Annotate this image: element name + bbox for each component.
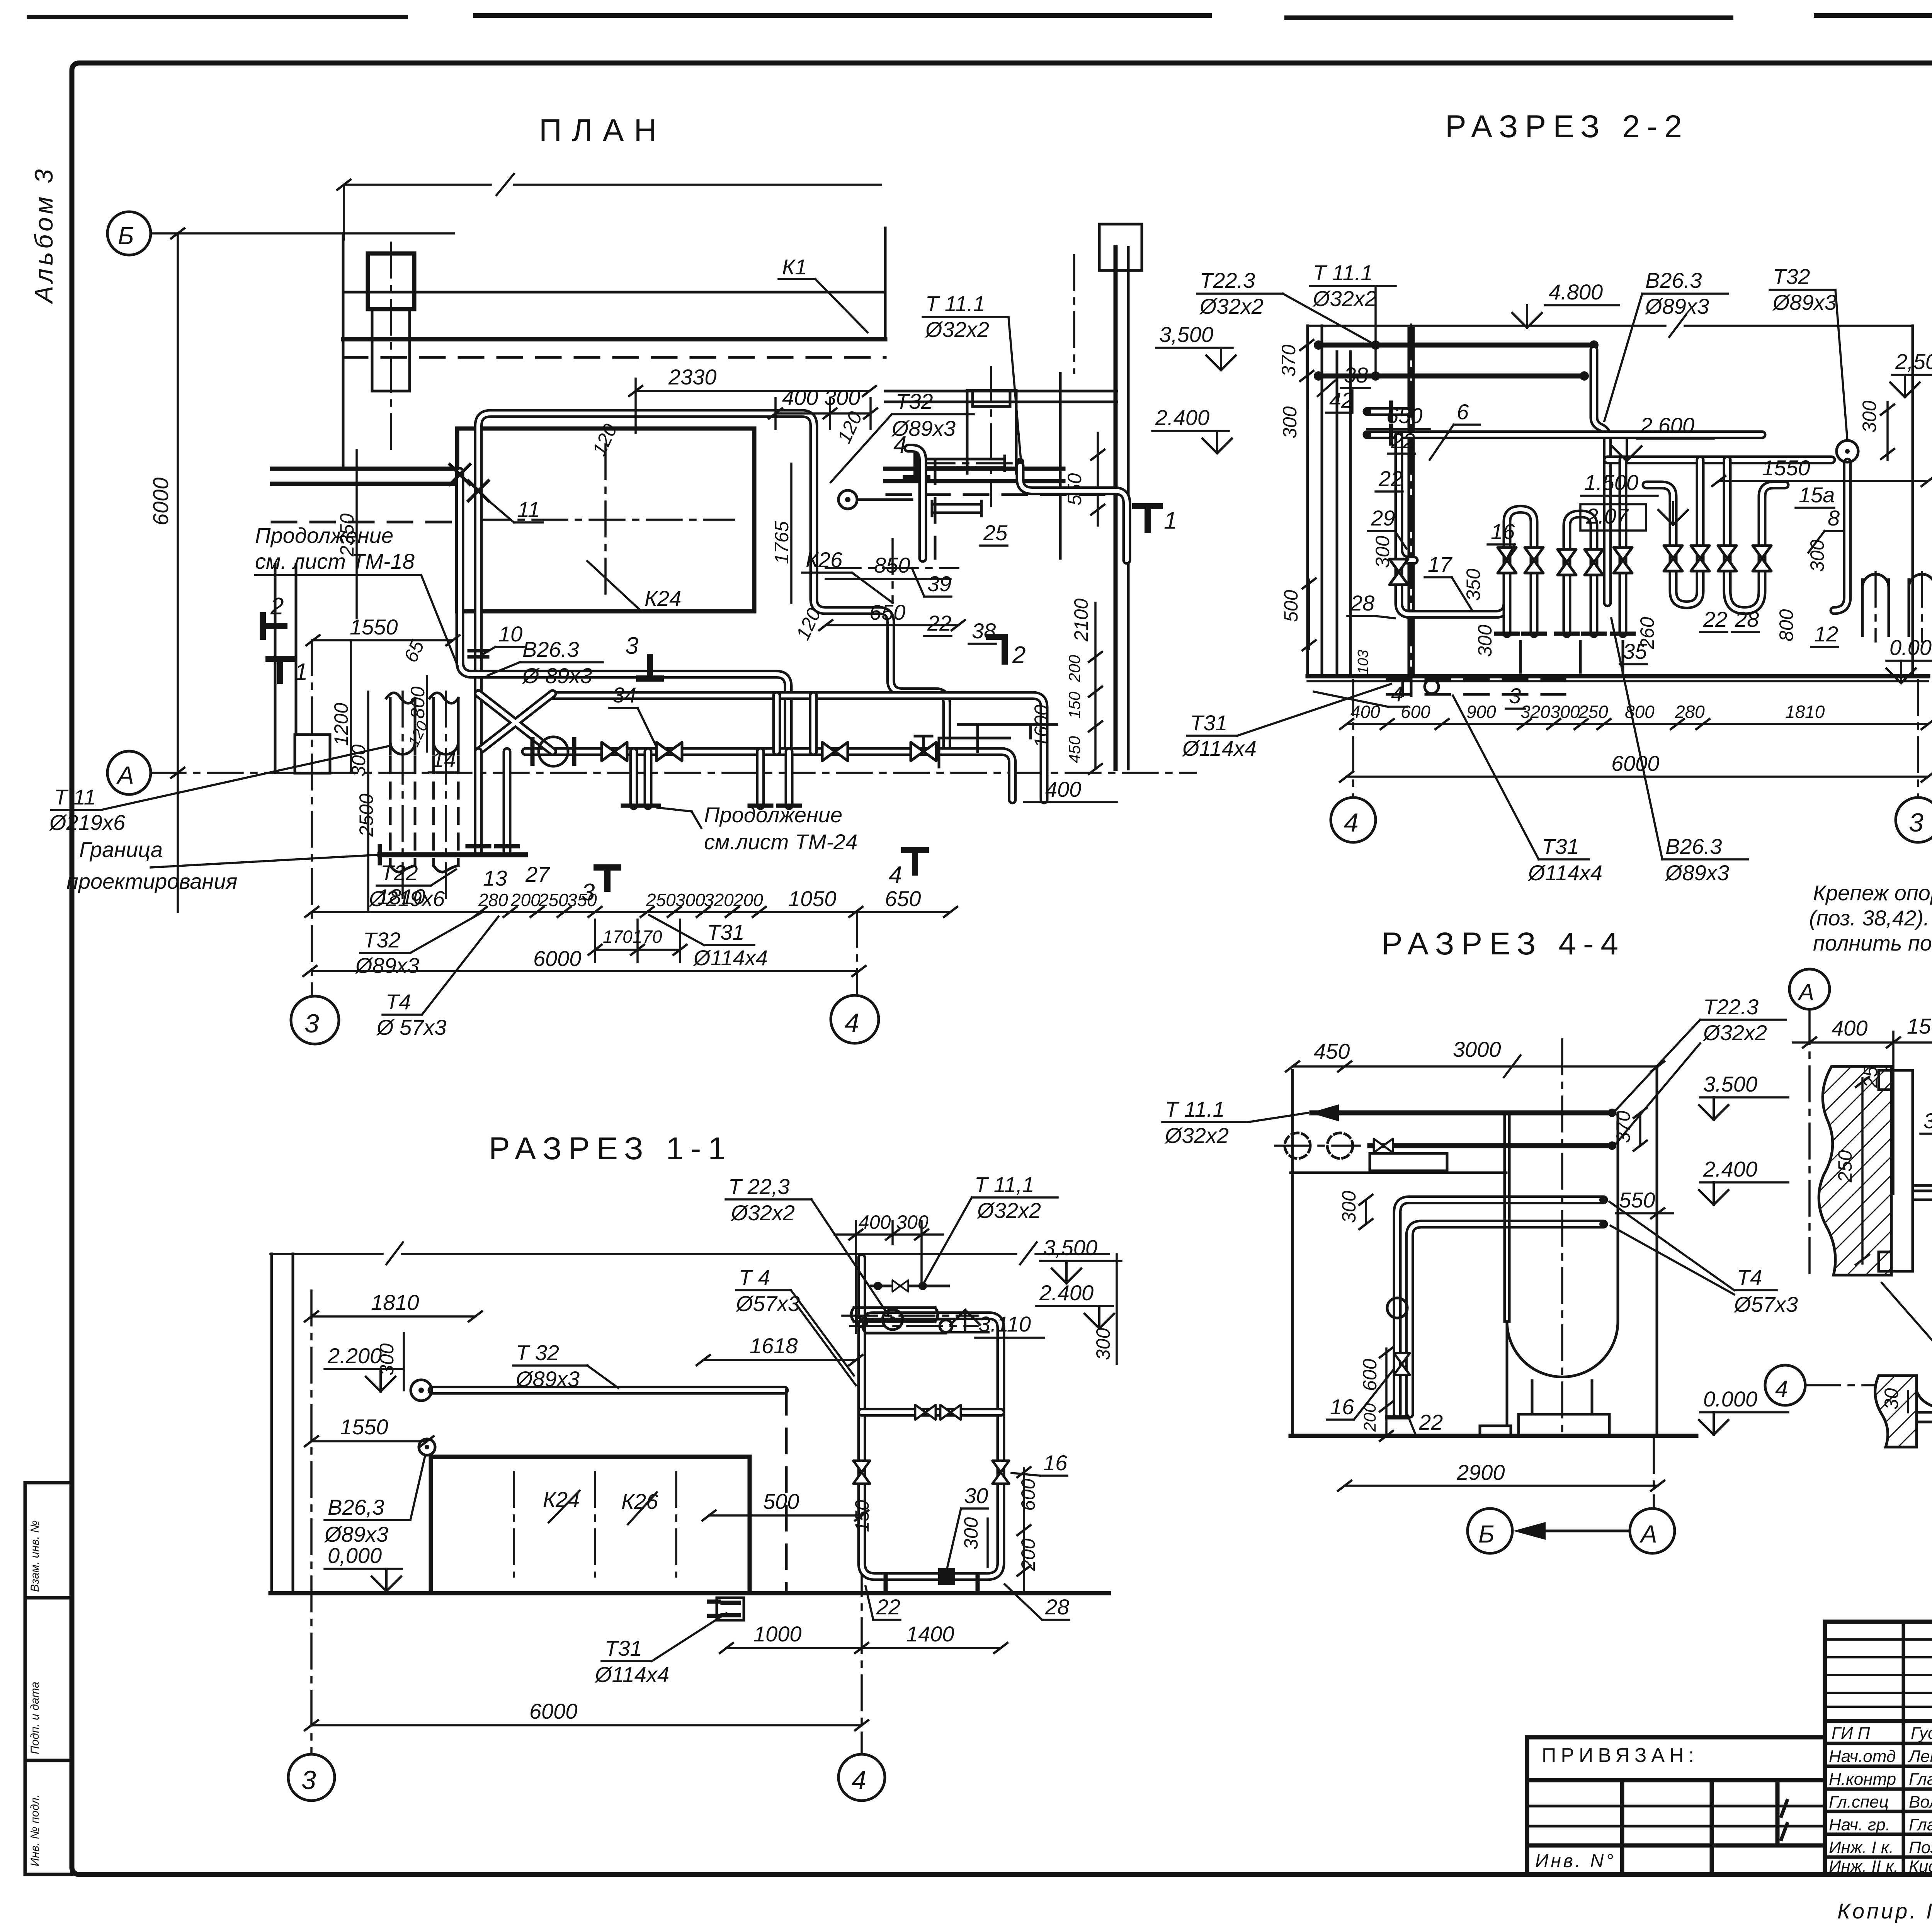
svg-text:Инв. N°: Инв. N° bbox=[1535, 1851, 1616, 1871]
valves on manifold bbox=[602, 742, 627, 761]
svg-text:А: А bbox=[1798, 979, 1814, 1005]
left boundary bbox=[1291, 1070, 1294, 1436]
svg-text:250: 250 bbox=[538, 890, 568, 910]
svg-text:103: 103 bbox=[1355, 650, 1371, 674]
svg-text:Т22.3: Т22.3 bbox=[1703, 995, 1759, 1019]
svg-text:ГИ П: ГИ П bbox=[1832, 1724, 1870, 1743]
black square fitting bbox=[938, 1568, 955, 1585]
T4 short pipe left bbox=[1367, 412, 1762, 435]
svg-text:3: 3 bbox=[625, 633, 638, 659]
svg-text:2500: 2500 bbox=[355, 794, 377, 837]
T31 underground box bbox=[717, 1598, 744, 1620]
svg-text:Ø89х3: Ø89х3 bbox=[1665, 861, 1729, 885]
svg-text:14: 14 bbox=[432, 747, 456, 772]
svg-text:Продолжение: Продолжение bbox=[704, 803, 842, 827]
svg-text:400: 400 bbox=[1832, 1016, 1867, 1040]
svg-text:1400: 1400 bbox=[906, 1622, 954, 1646]
svg-text:800: 800 bbox=[1776, 609, 1797, 641]
T11.1 drop pipe bbox=[1016, 458, 1024, 466]
svg-text:Ø114х4: Ø114х4 bbox=[693, 946, 768, 970]
svg-text:600: 600 bbox=[1359, 1359, 1381, 1391]
svg-text:Ø114х4: Ø114х4 bbox=[594, 1662, 669, 1687]
axis 4 dash line bbox=[856, 912, 858, 994]
top extension line bbox=[344, 174, 881, 195]
svg-text:Т31: Т31 bbox=[707, 920, 745, 944]
svg-text:4: 4 bbox=[1344, 808, 1359, 837]
svg-text:Ø57х3: Ø57х3 bbox=[1733, 1292, 1798, 1316]
svg-text:Ø89х3: Ø89х3 bbox=[355, 953, 419, 978]
svg-text:Т22: Т22 bbox=[381, 861, 418, 885]
svg-text:1: 1 bbox=[294, 659, 308, 685]
svg-text:320: 320 bbox=[1520, 702, 1550, 722]
svg-text:250: 250 bbox=[1578, 702, 1608, 722]
level 3.110 bbox=[942, 1310, 988, 1332]
manifold pipe bbox=[526, 752, 1012, 800]
ceiling line 4.800 bbox=[1308, 315, 1913, 337]
svg-text:Б: Б bbox=[118, 222, 134, 250]
wall band dashed bbox=[272, 521, 457, 524]
svg-text:Т32: Т32 bbox=[1773, 264, 1810, 289]
svg-text:3: 3 bbox=[301, 1765, 316, 1795]
sheet top edge broken line bbox=[29, 15, 1932, 18]
svg-text:2: 2 bbox=[1012, 642, 1026, 668]
svg-text:проектирования: проектирования bbox=[66, 869, 237, 893]
svg-text:3: 3 bbox=[582, 879, 595, 906]
boiler U loops bbox=[1507, 460, 1623, 634]
anchor on B26 riser top bbox=[450, 464, 470, 485]
svg-text:6000: 6000 bbox=[529, 1699, 578, 1723]
svg-text:Т32: Т32 bbox=[363, 928, 401, 952]
svg-text:38;42: 38;42 bbox=[1923, 1109, 1932, 1133]
axis vertical bbox=[1653, 1438, 1655, 1507]
T32 riser with circle bbox=[1834, 462, 1847, 611]
svg-text:Ø32х2: Ø32х2 bbox=[1164, 1123, 1229, 1148]
svg-text:300: 300 bbox=[960, 1517, 982, 1549]
svg-text:0.000: 0.000 bbox=[1889, 635, 1932, 660]
svg-text:300: 300 bbox=[1279, 406, 1301, 439]
svg-text:400: 400 bbox=[1350, 702, 1380, 722]
svg-text:Подп. и дата: Подп. и дата bbox=[29, 1682, 41, 1754]
svg-text:650: 650 bbox=[869, 600, 905, 624]
svg-text:150: 150 bbox=[851, 1500, 873, 1532]
bottom tick of drop bbox=[1387, 1415, 1407, 1420]
lower sub-detail bbox=[1765, 1365, 1805, 1405]
svg-text:Ø32х2: Ø32х2 bbox=[1702, 1020, 1767, 1045]
svg-text:Копир. Ганкова: Копир. Ганкова bbox=[1837, 1899, 1932, 1923]
right boundary line bbox=[1116, 1254, 1118, 1364]
svg-text:К24: К24 bbox=[645, 586, 681, 611]
svg-text:15а: 15а bbox=[1799, 483, 1835, 507]
column hatched bbox=[1819, 1066, 1891, 1275]
stub end flanges bbox=[623, 804, 800, 808]
top pipe 1 bbox=[1312, 1111, 1612, 1116]
svg-text:4.800: 4.800 bbox=[1549, 280, 1603, 304]
boiler body bbox=[1505, 1113, 1618, 1321]
svg-text:Гладикова: Гладикова bbox=[1909, 1770, 1932, 1789]
right pipe loop bbox=[862, 1316, 1001, 1577]
valve pipe T11.1 at 3.300 bbox=[871, 1285, 949, 1287]
svg-text:22: 22 bbox=[876, 1595, 900, 1619]
pipe cylinders T22.3 bbox=[851, 1308, 938, 1321]
fitting circle bbox=[1387, 1298, 1407, 1318]
svg-text:Киселева: Киселева bbox=[1909, 1857, 1932, 1876]
svg-text:0,000: 0,000 bbox=[328, 1543, 382, 1568]
chimney column bbox=[368, 253, 414, 309]
svg-text:Поздеева: Поздеева bbox=[1909, 1838, 1932, 1857]
svg-text:42: 42 bbox=[1329, 388, 1353, 412]
axis B line bbox=[151, 232, 454, 235]
svg-text:Нач. гр.: Нач. гр. bbox=[1829, 1815, 1890, 1834]
role names bbox=[1829, 1724, 1932, 1876]
svg-text:850: 850 bbox=[874, 553, 910, 577]
svg-text:Нач.отд: Нач.отд bbox=[1829, 1747, 1896, 1766]
svg-text:1765: 1765 bbox=[771, 521, 793, 564]
svg-text:В26.3: В26.3 bbox=[522, 637, 579, 662]
manifold exit step lines bbox=[939, 724, 1057, 767]
connector pipes bbox=[478, 694, 813, 752]
axis 3 dash line bbox=[311, 640, 313, 995]
union on T32 riser bbox=[469, 651, 488, 657]
svg-text:370: 370 bbox=[1278, 344, 1299, 377]
svg-text:25: 25 bbox=[983, 520, 1008, 545]
svg-text:Т31: Т31 bbox=[1190, 711, 1228, 735]
left wall lower verticals bbox=[275, 564, 296, 773]
svg-text:300: 300 bbox=[1550, 702, 1580, 722]
sleeve cylinders bbox=[923, 456, 1005, 471]
svg-text:Ø 57х3: Ø 57х3 bbox=[376, 1015, 447, 1039]
pipe end circles dashed bbox=[1285, 1133, 1310, 1158]
svg-text:Гладикова: Гладикова bbox=[1909, 1815, 1932, 1834]
svg-text:22: 22 bbox=[1418, 1410, 1443, 1434]
bottom dim chain bbox=[1347, 723, 1928, 725]
circle B bbox=[1468, 1509, 1512, 1553]
svg-text:17: 17 bbox=[1428, 552, 1452, 577]
svg-text:Т32: Т32 bbox=[896, 389, 933, 413]
angle bracket bbox=[1917, 1391, 1932, 1412]
svg-text:Ø 89х3: Ø 89х3 bbox=[522, 663, 592, 688]
svg-text:300: 300 bbox=[1859, 400, 1880, 433]
svg-text:2900: 2900 bbox=[1456, 1460, 1505, 1485]
svg-text:370: 370 bbox=[1612, 1111, 1634, 1143]
svg-text:10: 10 bbox=[498, 622, 522, 646]
svg-text:3,500: 3,500 bbox=[1043, 1235, 1097, 1260]
svg-text:Ø89х3: Ø89х3 bbox=[1772, 290, 1837, 315]
svg-text:Ø89х3: Ø89х3 bbox=[324, 1522, 388, 1546]
top wall dashed line bbox=[343, 356, 885, 359]
svg-text:12: 12 bbox=[1814, 622, 1838, 646]
axis 3 circle bbox=[291, 996, 339, 1044]
svg-text:3.500: 3.500 bbox=[1703, 1072, 1757, 1096]
svg-text:см. лист ТМ-18: см. лист ТМ-18 bbox=[255, 549, 415, 573]
svg-text:Т4: Т4 bbox=[1737, 1265, 1762, 1289]
svg-text:Ø32х2: Ø32х2 bbox=[730, 1201, 795, 1225]
svg-text:4: 4 bbox=[1775, 1376, 1788, 1402]
svg-text:1810: 1810 bbox=[377, 884, 425, 909]
svg-text:Лепендин: Лепендин bbox=[1908, 1747, 1932, 1766]
anchor on T32 riser bbox=[468, 481, 488, 501]
left wall top vertical bbox=[342, 233, 345, 469]
floor line bbox=[1308, 674, 1928, 679]
svg-text:Инж. I к.: Инж. I к. bbox=[1829, 1838, 1894, 1857]
svg-text:К1: К1 bbox=[782, 255, 807, 279]
svg-text:600: 600 bbox=[1401, 702, 1430, 722]
svg-text:0.000: 0.000 bbox=[1703, 1387, 1757, 1411]
circle 4 bbox=[838, 1754, 885, 1801]
svg-text:2.07: 2.07 bbox=[1586, 504, 1629, 528]
axis circles bbox=[1352, 680, 1354, 798]
manifold stubs bbox=[478, 752, 789, 852]
svg-text:260: 260 bbox=[1636, 617, 1658, 650]
svg-text:Ø57х3: Ø57х3 bbox=[735, 1291, 800, 1316]
axis A line bbox=[151, 772, 1196, 774]
wall step box bbox=[295, 735, 330, 773]
svg-text:650: 650 bbox=[1386, 403, 1422, 428]
right wall verticals bbox=[1114, 247, 1118, 769]
axis A circle bbox=[107, 751, 151, 794]
left wall verticals bbox=[1308, 326, 1350, 676]
svg-text:22: 22 bbox=[1378, 466, 1403, 491]
privyazan table bbox=[1527, 1737, 1825, 1874]
svg-text:Т 4: Т 4 bbox=[739, 1265, 770, 1289]
svg-text:300: 300 bbox=[1338, 1190, 1360, 1223]
platform bbox=[1291, 1172, 1506, 1174]
bottom stubs bbox=[886, 1577, 978, 1589]
svg-text:3000: 3000 bbox=[1453, 1037, 1501, 1061]
svg-text:400 300: 400 300 bbox=[782, 385, 860, 410]
hanger rods bbox=[1409, 328, 1413, 674]
svg-text:320: 320 bbox=[704, 890, 734, 910]
axis B circle bbox=[107, 212, 151, 255]
svg-text:В26,3: В26,3 bbox=[328, 1495, 384, 1519]
bracket beam bbox=[1913, 1182, 1932, 1202]
svg-text:РАЗРЕЗ 1-1: РАЗРЕЗ 1-1 bbox=[489, 1131, 733, 1166]
mid pipe bbox=[862, 1408, 1001, 1417]
svg-text:3: 3 bbox=[304, 1009, 319, 1038]
svg-text:Т4: Т4 bbox=[386, 990, 411, 1014]
left wall bbox=[272, 1254, 293, 1593]
beam side bbox=[1917, 1410, 1932, 1425]
upper pump line bbox=[553, 696, 1044, 800]
svg-text:2330: 2330 bbox=[668, 365, 717, 389]
floor bbox=[270, 1591, 1109, 1595]
svg-text:1550: 1550 bbox=[340, 1415, 388, 1439]
svg-text:300: 300 bbox=[1372, 536, 1393, 568]
svg-text:300: 300 bbox=[675, 890, 705, 910]
svg-text:1: 1 bbox=[1164, 507, 1177, 534]
svg-text:1810: 1810 bbox=[371, 1290, 419, 1315]
svg-text:500: 500 bbox=[1280, 590, 1302, 622]
svg-text:200: 200 bbox=[510, 890, 541, 910]
boiler K24 rect bbox=[457, 429, 754, 611]
svg-text:РАЗРЕЗ 4-4: РАЗРЕЗ 4-4 bbox=[1381, 926, 1625, 961]
svg-text:3.110: 3.110 bbox=[978, 1312, 1031, 1336]
svg-text:6000: 6000 bbox=[1611, 751, 1660, 776]
svg-text:Волкова: Волкова bbox=[1909, 1793, 1932, 1811]
svg-text:2: 2 bbox=[270, 593, 284, 620]
svg-text:(поз. 38,42). Кронштейн вы-: (поз. 38,42). Кронштейн вы- bbox=[1809, 906, 1932, 930]
plate bbox=[1891, 1070, 1913, 1271]
svg-text:200: 200 bbox=[733, 890, 763, 910]
svg-text:Взам. инв. №: Взам. инв. № bbox=[29, 1520, 41, 1592]
tanks in section bbox=[1862, 574, 1932, 636]
svg-text:2.600: 2.600 bbox=[1640, 413, 1694, 437]
svg-text:250: 250 bbox=[1834, 1150, 1856, 1183]
svg-text:РАЗРЕЗ 2-2: РАЗРЕЗ 2-2 bbox=[1445, 109, 1689, 144]
svg-text:4: 4 bbox=[889, 862, 902, 888]
svg-text:Крепеж опор трубопроводов: Крепеж опор трубопроводов bbox=[1813, 881, 1932, 905]
svg-text:1618: 1618 bbox=[750, 1333, 798, 1358]
svg-text:3,500: 3,500 bbox=[1159, 322, 1213, 347]
svg-text:900: 900 bbox=[1466, 702, 1496, 722]
svg-text:см.лист ТМ-24: см.лист ТМ-24 bbox=[704, 830, 857, 854]
svg-text:1000: 1000 bbox=[753, 1622, 802, 1646]
svg-text:450: 450 bbox=[1065, 736, 1083, 763]
T32 pipe 2.200 bbox=[432, 1386, 784, 1395]
axis 4 vertical bbox=[861, 1275, 863, 1754]
svg-text:29: 29 bbox=[1371, 506, 1395, 530]
svg-text:2.200: 2.200 bbox=[327, 1344, 382, 1368]
svg-text:Ø89х3: Ø89х3 bbox=[1645, 294, 1709, 318]
collector line bbox=[380, 852, 526, 857]
svg-text:К26: К26 bbox=[806, 548, 843, 572]
svg-text:Т 32: Т 32 bbox=[516, 1340, 559, 1365]
svg-text:Т31: Т31 bbox=[1542, 834, 1579, 859]
distribution pipe 2.600 bbox=[1607, 456, 1832, 464]
svg-text:38: 38 bbox=[1344, 363, 1368, 387]
svg-text:Граница: Граница bbox=[79, 837, 163, 862]
circle A bbox=[1789, 969, 1830, 1009]
bottom flanges bbox=[1496, 632, 1634, 636]
svg-text:Альбом 3: Альбом 3 bbox=[29, 166, 58, 304]
svg-text:Гусева: Гусева bbox=[1911, 1724, 1932, 1743]
top-right small pipes bbox=[1073, 255, 1075, 373]
svg-text:2.400: 2.400 bbox=[1703, 1157, 1757, 1181]
top pipe T22.3 bbox=[1318, 343, 1594, 348]
valves on loops bbox=[1389, 559, 1408, 585]
svg-text:3: 3 bbox=[1909, 808, 1923, 837]
svg-text:350: 350 bbox=[1463, 568, 1484, 601]
svg-text:Ø219х6: Ø219х6 bbox=[49, 810, 126, 835]
partition wall bbox=[1059, 373, 1062, 558]
svg-text:ПРИВЯЗАН:: ПРИВЯЗАН: bbox=[1542, 1744, 1699, 1767]
svg-text:1200: 1200 bbox=[330, 703, 352, 746]
svg-text:650: 650 bbox=[885, 886, 921, 911]
svg-text:13: 13 bbox=[483, 866, 507, 890]
top wall upper line bbox=[343, 291, 885, 294]
riser B26.3 bbox=[1594, 350, 1607, 603]
label K26 bbox=[826, 567, 958, 569]
svg-text:К24: К24 bbox=[543, 1487, 580, 1512]
svg-text:Продолжение: Продолжение bbox=[255, 523, 393, 548]
left stamp boxes bbox=[25, 1483, 72, 1874]
mid pipes T4 bbox=[1397, 1200, 1604, 1414]
arrow A to B bbox=[1542, 1530, 1630, 1532]
svg-text:Инв. № подл.: Инв. № подл. bbox=[29, 1794, 41, 1866]
svg-text:1050: 1050 bbox=[788, 886, 837, 911]
boiler K24 front bbox=[431, 1457, 750, 1593]
svg-text:4: 4 bbox=[893, 432, 906, 458]
svg-text:3: 3 bbox=[1509, 684, 1521, 708]
svg-text:22: 22 bbox=[1703, 607, 1727, 631]
svg-text:39: 39 bbox=[927, 571, 951, 596]
left drop pipe bbox=[1399, 435, 1507, 614]
signature table thin rows bbox=[1825, 1639, 1932, 1707]
pump circle bbox=[539, 737, 568, 766]
riser pipe at partition bbox=[913, 444, 920, 452]
svg-text:Ø32х2: Ø32х2 bbox=[1312, 286, 1377, 311]
svg-text:1600: 1600 bbox=[1031, 705, 1052, 748]
svg-text:550: 550 bbox=[1619, 1188, 1655, 1212]
svg-text:300: 300 bbox=[1092, 1328, 1114, 1360]
svg-text:800: 800 bbox=[407, 686, 429, 719]
top pipe 2 bbox=[1370, 1143, 1612, 1148]
svg-text:11: 11 bbox=[517, 497, 540, 522]
svg-text:Ø89х3: Ø89х3 bbox=[515, 1367, 580, 1391]
svg-text:300: 300 bbox=[1806, 539, 1828, 572]
underground T31 bbox=[1387, 679, 1565, 694]
svg-text:Т 11.1: Т 11.1 bbox=[1165, 1097, 1225, 1121]
svg-text:34: 34 bbox=[612, 683, 636, 707]
svg-text:200: 200 bbox=[1361, 1403, 1379, 1432]
top wall lower line bbox=[343, 337, 885, 342]
section flag 1 left bbox=[269, 659, 292, 681]
svg-text:А: А bbox=[116, 761, 134, 789]
svg-text:600: 600 bbox=[1017, 1478, 1039, 1511]
svg-text:1.500: 1.500 bbox=[1584, 470, 1638, 495]
svg-text:200: 200 bbox=[1065, 655, 1083, 682]
pedestal bbox=[1532, 1381, 1592, 1414]
svg-text:А: А bbox=[1639, 1520, 1657, 1548]
main title block outer bbox=[1825, 1622, 1932, 1874]
floor bbox=[1291, 1434, 1696, 1438]
svg-text:Ø114х4: Ø114х4 bbox=[1182, 736, 1257, 760]
svg-text:28: 28 bbox=[1350, 591, 1374, 615]
axis 4 circle bbox=[831, 995, 879, 1043]
column hatch lower bbox=[1875, 1376, 1917, 1447]
svg-text:2.400: 2.400 bbox=[1039, 1281, 1094, 1305]
svg-text:Т 11.1: Т 11.1 bbox=[1313, 260, 1373, 285]
svg-text:Н.контр: Н.контр bbox=[1829, 1770, 1896, 1789]
svg-text:30: 30 bbox=[964, 1483, 988, 1508]
svg-text:27: 27 bbox=[525, 862, 550, 886]
svg-text:Т 11.1: Т 11.1 bbox=[925, 291, 985, 316]
svg-text:150: 150 bbox=[1907, 1014, 1932, 1038]
svg-text:Т 11: Т 11 bbox=[54, 785, 96, 809]
svg-text:Гл.спец: Гл.спец bbox=[1829, 1793, 1889, 1811]
svg-text:8: 8 bbox=[1828, 506, 1840, 530]
svg-text:120: 120 bbox=[588, 421, 621, 459]
tank 1 bbox=[386, 693, 415, 872]
svg-text:150: 150 bbox=[1065, 691, 1083, 719]
svg-text:22: 22 bbox=[927, 611, 951, 635]
circle 3 bbox=[288, 1754, 335, 1801]
pipe B26.3 bbox=[460, 471, 788, 748]
svg-text:6000: 6000 bbox=[148, 477, 173, 526]
svg-text:450: 450 bbox=[1314, 1039, 1350, 1063]
svg-text:Ø32х2: Ø32х2 bbox=[1199, 294, 1264, 318]
svg-text:1550: 1550 bbox=[350, 615, 398, 639]
svg-text:30: 30 bbox=[1881, 1388, 1902, 1410]
pipe T32 main loop bbox=[478, 413, 947, 852]
svg-text:Т 11,1: Т 11,1 bbox=[975, 1172, 1034, 1197]
T11.1 stub pipe bbox=[838, 490, 857, 509]
svg-text:16: 16 bbox=[1491, 519, 1515, 544]
svg-text:280: 280 bbox=[1675, 702, 1705, 722]
svg-text:Ø32х2: Ø32х2 bbox=[925, 317, 989, 342]
axis 3 vertical bbox=[310, 1291, 313, 1754]
svg-text:2100: 2100 bbox=[1070, 599, 1092, 642]
svg-text:170170: 170170 bbox=[603, 927, 662, 947]
